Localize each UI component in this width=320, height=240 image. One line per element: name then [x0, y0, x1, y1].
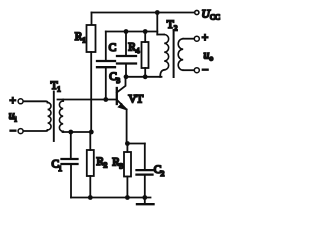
node junction top rail to T2 primary	[155, 10, 160, 15]
wire ground rail	[71, 197, 151, 199]
label C3	[109, 71, 120, 85]
transformer T2 secondary	[178, 39, 194, 70]
wire bias node line	[63, 131, 92, 133]
node emitter junction	[125, 141, 130, 146]
capacitor C3	[117, 32, 136, 77]
transistor VT	[117, 77, 127, 144]
svg-text:3: 3	[119, 162, 123, 171]
wire R1 top lead	[91, 13, 93, 26]
label R4	[128, 42, 140, 56]
wire vertical from Ucc dot	[156, 13, 158, 35]
svg-text:+: +	[202, 32, 209, 44]
wire R3 leads	[126, 144, 128, 198]
svg-text:1: 1	[82, 36, 86, 45]
transformer T1 core	[53, 92, 55, 142]
svg-text:1: 1	[57, 85, 61, 94]
label R2	[96, 156, 107, 170]
node C2 bottom	[142, 195, 147, 200]
transformer T2 core	[173, 30, 175, 77]
label uo	[204, 50, 214, 63]
node R1/R2 junction	[89, 130, 94, 135]
terminal input -	[18, 129, 23, 134]
label C1	[52, 159, 63, 173]
svg-text:4: 4	[136, 46, 140, 55]
resistor R1	[87, 25, 96, 52]
svg-text:1: 1	[58, 164, 62, 173]
terminal output -	[194, 68, 199, 73]
svg-text:i: i	[15, 115, 17, 124]
node C bottom on base wire	[103, 97, 108, 102]
ground	[137, 198, 154, 205]
label C2	[154, 164, 165, 178]
transformer T2 primary	[157, 35, 168, 77]
capacitor C1	[62, 132, 78, 198]
svg-text:VT: VT	[128, 94, 143, 106]
terminal Ucc	[195, 10, 199, 14]
label R1	[75, 31, 86, 45]
transformer T1 primary	[21, 101, 51, 131]
terminal output +	[194, 36, 199, 41]
label R3	[112, 157, 123, 171]
svg-text:−: −	[10, 126, 16, 138]
svg-text:−: −	[202, 65, 209, 77]
node C1 top	[68, 130, 73, 135]
node collector / C3 bottom	[124, 74, 129, 79]
wire collector node line	[126, 76, 162, 78]
svg-text:+: +	[10, 95, 17, 107]
svg-text:T: T	[167, 19, 174, 31]
svg-text:2: 2	[161, 169, 165, 178]
node R2 bottom	[88, 195, 93, 200]
wire R1 bottom lead down to bias node (crosses base wire)	[90, 52, 92, 132]
resistor R3	[124, 152, 131, 177]
transformer T1 secondary	[59, 100, 63, 133]
wire R4 leads	[144, 32, 146, 77]
wire R2 leads	[89, 132, 91, 198]
wire top supply rail	[92, 12, 195, 14]
label Ucc	[202, 9, 221, 22]
transformer T1 label	[51, 80, 61, 94]
node R4 top	[143, 29, 148, 34]
svg-text:o: o	[209, 54, 213, 63]
svg-text:C: C	[109, 42, 117, 54]
svg-text:CC: CC	[210, 13, 220, 22]
transistor VT base wire	[58, 99, 117, 101]
capacitor C2	[137, 144, 153, 198]
capacitor C	[97, 32, 115, 100]
node R3 bottom	[125, 195, 130, 200]
resistor R2	[87, 150, 94, 176]
label T2	[167, 19, 178, 33]
svg-text:2: 2	[174, 24, 178, 33]
svg-text:3: 3	[116, 76, 120, 85]
node C3 top	[124, 29, 129, 34]
node R4 bottom	[143, 74, 148, 79]
label ui	[9, 110, 17, 124]
resistor R4	[142, 42, 149, 68]
terminal input +	[18, 99, 23, 104]
wire emitter to C2	[127, 143, 144, 145]
wire second rail	[106, 31, 158, 33]
svg-text:2: 2	[104, 161, 108, 170]
